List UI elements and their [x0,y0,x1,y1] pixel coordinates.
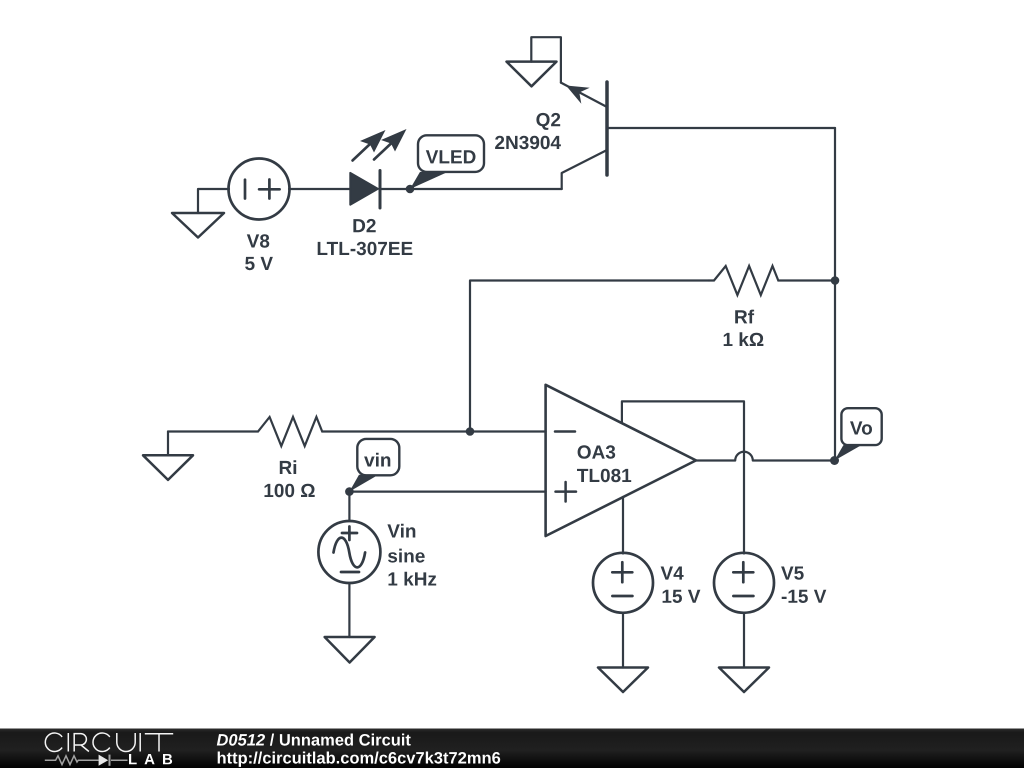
wire vin node down to Vin source [348,492,350,521]
net flag VLED [410,135,484,189]
label Vin [387,524,415,538]
wire Vin to ground [348,583,350,637]
label V5 [781,567,804,580]
transistor Q2 [561,82,607,189]
label V8 [247,234,269,248]
wire D2 to Q2 collector [380,188,562,190]
ground (Q2 emitter) [507,37,561,86]
net flag vin [349,439,399,492]
footer title text D0512 / Unnamed Circuit [217,734,411,746]
node output junction dot [830,456,839,465]
ground (Vin) [325,637,375,663]
ground (V4) [598,668,648,693]
resistor Ri [168,417,470,446]
value label sine [388,549,425,563]
value label 5 V [245,257,273,270]
value label 2N3904 [495,136,561,150]
wire V4 to ground [622,613,624,668]
wire feedback from inverting node up [470,281,709,432]
wire V5 to ground [743,613,745,668]
wire V8 to D2 [289,188,350,190]
value label TL081 [577,469,631,483]
value label 1 kHz [389,572,437,586]
ground (V5) [719,668,769,693]
label V4 [661,567,684,580]
resistor Rf [709,266,835,295]
wire op-amp V+ pin to V5 [622,401,744,553]
voltage source Vin (sine) [318,521,380,583]
label D2 [353,219,375,232]
wire right vertical (base / Rf / output node) [834,128,836,461]
footer logo text LAB [129,754,172,764]
node Rf-right junction dot [831,276,840,285]
label OA3 [578,445,616,459]
node vin junction dot [345,487,354,496]
op-amp OA3 [546,385,696,536]
label Q2 [536,113,560,130]
footer url text [218,752,501,767]
label Ri [280,460,296,474]
value label LTL-307EE [318,242,413,256]
label Rf [735,310,754,324]
wire op-amp V- pin to V4 [622,497,624,554]
wire op-amp output with hop over V5 wire [696,452,835,461]
net flag Vo [835,408,882,460]
voltage source V8 [229,159,290,220]
footer logo CIRCUIT LAB [45,733,173,766]
value label -15 V [782,590,827,603]
ground (V8) [172,189,229,238]
node inverting junction dot [466,427,475,436]
wire Q2 base to right vertical [607,127,835,129]
wire non-inverting input [349,491,545,493]
ground (Ri) [143,432,193,480]
value label 1 kOhm [724,332,764,346]
node VLED junction dot [406,185,415,194]
voltage source V5 [714,553,774,613]
value label 15 V [663,590,701,603]
value label 100 Ohm [265,484,315,498]
voltage source V4 [593,553,653,613]
LED D2 [350,129,406,208]
footer bar [0,729,1024,768]
wire inverting input [470,430,546,432]
